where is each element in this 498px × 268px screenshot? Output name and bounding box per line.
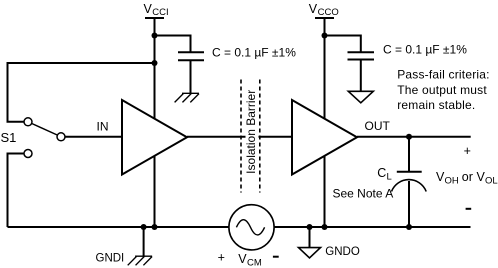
svg-text:V: V [238,252,247,266]
svg-text:+: + [218,251,225,265]
svg-text:remain stable.: remain stable. [397,98,475,112]
svg-text:See Note A: See Note A [333,187,394,201]
svg-text:Pass-fail criteria:: Pass-fail criteria: [397,68,490,82]
svg-text:C: C [377,166,386,180]
svg-text:Isolation Barrier: Isolation Barrier [244,90,258,174]
svg-text:OUT: OUT [365,119,391,133]
svg-text:L: L [387,172,392,183]
svg-text:S1: S1 [1,130,17,145]
svg-text:GNDO: GNDO [325,246,360,258]
svg-text:C = 0.1 µF ±1%: C = 0.1 µF ±1% [383,42,467,56]
svg-text:V: V [309,2,318,16]
svg-text:CCO: CCO [318,7,339,18]
svg-text:+: + [464,144,471,158]
svg-text:CM: CM [247,258,262,268]
svg-text:The output must: The output must [397,83,487,97]
svg-text:OL: OL [485,176,498,187]
svg-text:IN: IN [97,119,109,133]
svg-text:or: or [462,170,473,184]
svg-text:GNDI: GNDI [96,253,125,265]
svg-text:OH: OH [445,176,459,187]
svg-text:C = 0.1 µF ±1%: C = 0.1 µF ±1% [212,46,296,60]
svg-text:CCI: CCI [152,7,168,18]
svg-text:V: V [144,2,153,16]
